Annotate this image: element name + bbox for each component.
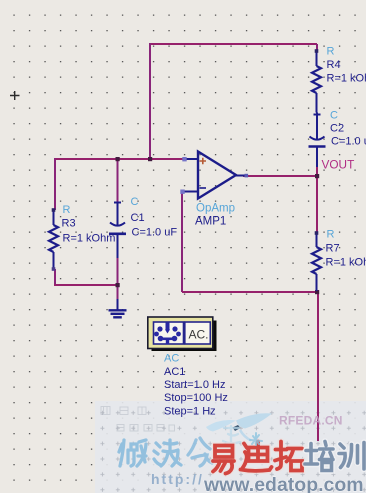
watermark airplane swoosh: [206, 413, 272, 440]
pin dot R4 top: [315, 49, 319, 53]
svg-text:C=1.0 uF: C=1.0 uF: [132, 227, 178, 239]
pin dot R3 bottom: [52, 267, 56, 271]
junction feedback node below R7: [315, 290, 319, 294]
svg-text:Step=1 Hz: Step=1 Hz: [164, 406, 216, 418]
capacitor C1: [109, 203, 126, 259]
svg-text:C=1.0 uF: C=1.0 uF: [331, 136, 366, 148]
op-amp + input pin: [185, 158, 198, 160]
wire ground drop: [117, 285, 119, 300]
junction VOUT node: [315, 174, 319, 178]
pad output: [245, 174, 249, 178]
wire op-amp output to VOUT: [243, 175, 317, 177]
svg-text:www.edatop.com: www.edatop.com: [203, 474, 364, 493]
resistor R3: [49, 210, 58, 269]
svg-text:AC.: AC.: [189, 328, 209, 342]
svg-text:Stop=100 Hz: Stop=100 Hz: [164, 392, 228, 404]
op-amp minus sign: [200, 187, 207, 189]
watermark panel background: [95, 401, 366, 493]
wire feedback vertical: [181, 192, 183, 292]
op-amp output pin: [236, 175, 247, 177]
svg-text:C: C: [330, 110, 338, 122]
watermark grid crosses: [95, 401, 366, 493]
watermark faint row B: [117, 425, 175, 432]
origin cross marker: [10, 91, 20, 100]
junction C1 top on middle rail: [116, 157, 120, 161]
op-amp AMP1 triangle: [198, 152, 236, 199]
wire C1 top drop: [117, 159, 119, 202]
wire left vertical: [149, 43, 151, 159]
wire bottom rail: [54, 284, 118, 286]
wire VOUT vertical C2 to R7: [316, 167, 318, 233]
capacitor C2: [309, 113, 326, 168]
svg-text:C2: C2: [330, 123, 344, 135]
AC icon box: [148, 317, 213, 349]
watermark red char di: [241, 442, 272, 471]
svg-text:AMP1: AMP1: [195, 216, 226, 228]
junction at left vertical and middle rail: [148, 157, 152, 161]
wire feedback rail: [182, 291, 317, 293]
svg-text:R7: R7: [326, 243, 340, 255]
svg-text:C1: C1: [131, 212, 145, 224]
pad + input: [182, 157, 186, 161]
wire bottom vertical below R7: [317, 292, 319, 441]
pin dot R3 top: [52, 208, 56, 212]
AC icon left cell: [154, 322, 184, 344]
pad - input: [180, 190, 184, 194]
svg-text:R4: R4: [327, 59, 341, 71]
svg-text:C: C: [131, 196, 139, 208]
svg-text:Start=1.0 Hz: Start=1.0 Hz: [164, 379, 225, 391]
svg-text:RFEDA.CN: RFEDA.CN: [279, 414, 343, 428]
svg-text:R=1 kOhm: R=1 kOhm: [327, 73, 366, 85]
pin dot R7 top: [315, 231, 319, 235]
watermark calligraphy wei: [119, 440, 146, 466]
svg-text:R: R: [63, 204, 71, 216]
watermark red char pei: [305, 442, 333, 471]
svg-text:VOUT: VOUT: [322, 158, 355, 172]
svg-text:R: R: [327, 46, 335, 58]
watermark calligraphy fen: [188, 438, 212, 466]
wire middle rail to op-amp + input: [55, 158, 184, 160]
svg-text:R: R: [327, 229, 335, 241]
resistor R7: [312, 233, 321, 291]
wire R3 top drop: [54, 158, 56, 210]
watermark red char yi: [213, 446, 234, 474]
svg-text:OpAmp: OpAmp: [196, 203, 235, 215]
watermark red char tuo: [275, 442, 302, 471]
watermark red char xun: [339, 443, 364, 470]
wire top rail: [150, 43, 317, 45]
watermark calligraphy xiang faint: [223, 426, 240, 446]
watermark blue splash above di: [250, 433, 262, 445]
svg-text:AC1: AC1: [164, 366, 185, 378]
AC icon right cell: [185, 322, 211, 344]
svg-text:R3: R3: [62, 218, 76, 230]
AC icon shadow: [152, 321, 217, 352]
svg-text:R=1 kOhm: R=1 kOhm: [63, 233, 116, 245]
op-amp plus sign: [200, 158, 207, 164]
resistor R4: [312, 51, 321, 113]
op-amp - input pin: [184, 191, 198, 193]
wire R4 top drop: [316, 44, 318, 51]
svg-text:R=1 kOhm: R=1 kOhm: [326, 257, 366, 269]
watermark calligraphy bo: [154, 440, 181, 466]
wire C1 bottom: [117, 258, 119, 285]
wire R3 bottom: [54, 269, 56, 285]
svg-text:AC: AC: [164, 353, 179, 365]
svg-text:http://: http://: [151, 471, 204, 487]
junction C1 bottom rail to ground: [116, 283, 120, 287]
AC icon glyph: [154, 323, 181, 345]
watermark faint row A: [101, 407, 146, 415]
ground symbol: [109, 299, 127, 317]
